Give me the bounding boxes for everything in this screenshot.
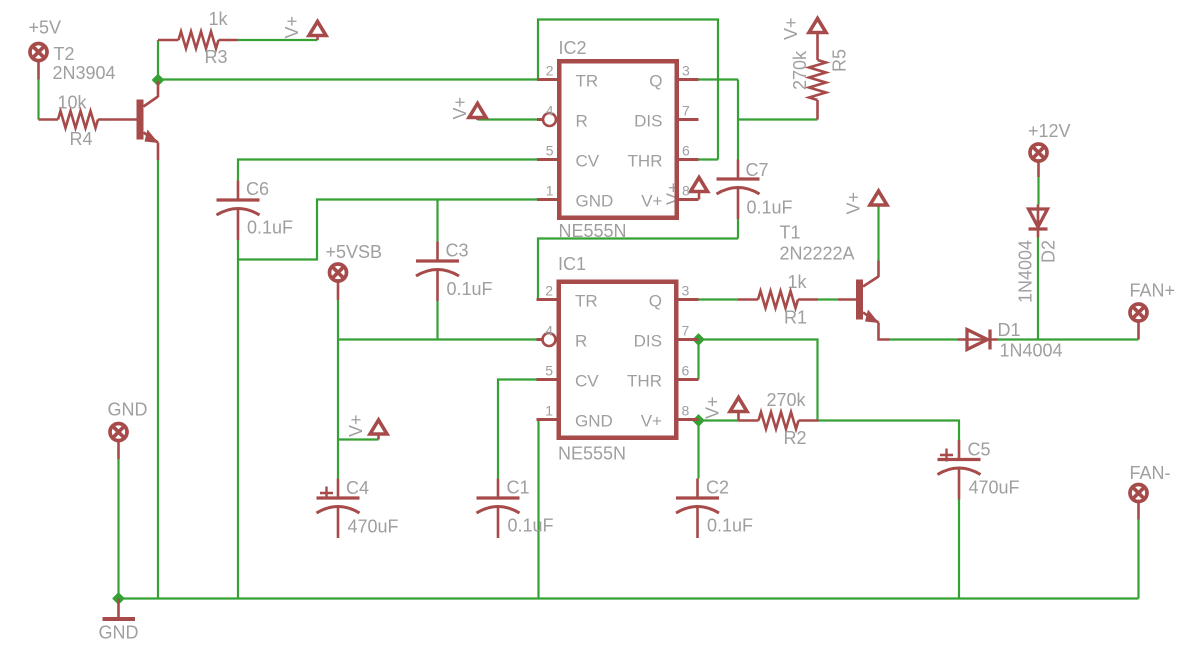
- svg-text:T2: T2: [54, 44, 75, 64]
- svg-text:7: 7: [682, 103, 690, 119]
- svg-text:C4: C4: [346, 478, 369, 498]
- pin 6 THR: [677, 378, 699, 381]
- transistor T2 2N3904: [53, 44, 159, 160]
- wire T2 emitter to ground bus: [157, 160, 159, 599]
- svg-text:5: 5: [546, 143, 554, 159]
- V+ symbol at IC2 pin8: [664, 178, 708, 206]
- wire IC2 pin3 Q to node: [699, 78, 739, 80]
- wire node down to C7 top: [737, 80, 739, 160]
- wire IC1 pin1 GND to ground bus: [537, 420, 539, 599]
- pin 7 DIS: [677, 118, 699, 121]
- svg-text:V+: V+: [703, 396, 723, 419]
- svg-text:THR: THR: [628, 152, 663, 171]
- svg-text:1N4004: 1N4004: [1000, 341, 1063, 361]
- svg-text:NE555N: NE555N: [558, 444, 626, 464]
- wire GND top symbol to ground bus: [117, 459, 119, 599]
- svg-text:C2: C2: [706, 478, 729, 498]
- capacitor C6 0.1uF: [217, 179, 294, 240]
- svg-text:5: 5: [545, 363, 553, 379]
- resistor R4: [39, 93, 137, 150]
- svg-text:T1: T1: [780, 223, 801, 243]
- svg-text:V+: V+: [641, 192, 662, 211]
- pin 2 TR: [537, 78, 559, 81]
- wire to R5 bottom: [738, 118, 818, 120]
- svg-text:R3: R3: [205, 47, 228, 67]
- svg-text:IC2: IC2: [559, 38, 587, 58]
- wire R3 right to V+: [238, 39, 318, 41]
- supply +12V: [1028, 121, 1071, 177]
- pin 8 V+: [677, 418, 699, 421]
- svg-text:GND: GND: [108, 400, 148, 420]
- svg-text:TR: TR: [575, 292, 598, 311]
- svg-text:3: 3: [682, 283, 690, 299]
- op-amp-box IC2 NE555N: [537, 38, 699, 241]
- svg-text:C7: C7: [746, 160, 769, 180]
- pin FAN+: [1130, 281, 1176, 340]
- supply +5V: [29, 18, 62, 80]
- pin 1 GND: [537, 418, 559, 421]
- capacitor C1 0.1uF: [477, 478, 554, 539]
- V+ symbol at T1 collector: [844, 191, 888, 215]
- supply +5VSB: [326, 242, 383, 300]
- svg-text:V+: V+: [450, 97, 470, 120]
- resistor R5: [790, 32, 850, 120]
- svg-text:8: 8: [682, 403, 690, 419]
- wire C3 bottom: [436, 301, 438, 340]
- wire V+ to IC2 pin4 R: [478, 118, 544, 120]
- svg-text:0.1uF: 0.1uF: [508, 516, 554, 536]
- capacitor C2 0.1uF: [676, 478, 753, 539]
- wire C3 top: [436, 200, 438, 242]
- wire +12V to D2: [1037, 177, 1039, 205]
- svg-text:7: 7: [682, 323, 690, 339]
- wire IC1 pin7 to pin6 THR: [697, 340, 699, 380]
- svg-text:V+: V+: [781, 17, 801, 40]
- wire node A to IC2 pin2 TR: [158, 78, 537, 80]
- svg-text:CV: CV: [576, 152, 600, 171]
- svg-text:THR: THR: [627, 372, 662, 391]
- wire D2 down to FAN+ net: [1037, 238, 1039, 340]
- wire V+ tap near C4: [338, 438, 379, 440]
- svg-text:4: 4: [546, 103, 554, 119]
- svg-text:1: 1: [546, 183, 554, 199]
- wire FAN- down to ground bus: [1137, 520, 1139, 599]
- wire IC2 pin6 THR: [699, 158, 719, 160]
- pin 3 Q: [677, 298, 699, 301]
- pin 1 GND: [537, 198, 559, 201]
- pin 4 R: [537, 118, 543, 121]
- capacitor C5 470uF polarized: [938, 440, 1020, 500]
- V+ symbol near R3: [282, 16, 326, 40]
- wire C5 bottom to ground bus: [958, 500, 960, 599]
- pin 3 Q: [677, 78, 699, 81]
- svg-text:V+: V+: [664, 182, 684, 205]
- junction at IC1 pin7: [692, 333, 705, 346]
- wire IC1 pin5 CV to C1: [498, 380, 537, 479]
- svg-text:Q: Q: [649, 292, 662, 311]
- wire C6 top to IC2 pin5 CV: [238, 160, 537, 181]
- svg-text:8: 8: [682, 183, 690, 199]
- svg-text:+5VSB: +5VSB: [326, 242, 383, 262]
- wire T1 collector to V+: [877, 207, 879, 261]
- svg-text:6: 6: [682, 363, 690, 379]
- diode D1 1N4004: [958, 320, 1063, 361]
- resistor R3: [158, 9, 238, 67]
- svg-text:R4: R4: [70, 129, 93, 149]
- diode D2 1N4004: [1016, 205, 1059, 304]
- wire R3 left down to node A: [157, 40, 159, 80]
- pin FAN-: [1130, 463, 1171, 520]
- capacitor C3 0.1uF: [416, 241, 493, 302]
- svg-text:2N2222A: 2N2222A: [780, 244, 855, 264]
- svg-text:V+: V+: [346, 414, 366, 437]
- wire IC1 pin7 DIS to R2 right: [699, 340, 818, 421]
- svg-text:R5: R5: [830, 49, 850, 72]
- junction at ground bus left: [112, 592, 125, 605]
- junction node A at T2 collector: [152, 74, 165, 87]
- svg-text:GND: GND: [575, 412, 613, 431]
- svg-text:V+: V+: [844, 192, 864, 215]
- svg-text:2: 2: [545, 283, 553, 299]
- pin 2 TR: [537, 298, 559, 301]
- svg-text:R2: R2: [784, 428, 807, 448]
- wire C7 bottom to IC1 pin2 TR: [538, 239, 738, 300]
- svg-text:C5: C5: [968, 440, 991, 460]
- svg-text:R1: R1: [784, 308, 807, 328]
- svg-text:10k: 10k: [58, 93, 88, 113]
- svg-text:C1: C1: [507, 478, 530, 498]
- wire +5V to R4: [37, 80, 39, 120]
- V+ symbol at IC1 pin8: [703, 396, 748, 420]
- wire D1 to FAN+: [998, 338, 1139, 340]
- svg-text:C6: C6: [246, 179, 269, 199]
- wire T1 emitter to D1: [890, 338, 958, 340]
- capacitor C7 0.1uF: [717, 160, 793, 220]
- wire C6 bottom to IC2 pin1 GND: [238, 200, 537, 260]
- svg-text:1k: 1k: [209, 9, 229, 29]
- svg-text:1N4004: 1N4004: [1016, 240, 1036, 303]
- svg-text:0.1uF: 0.1uF: [707, 516, 753, 536]
- transistor T1 2N2222A: [780, 223, 890, 340]
- svg-text:270k: 270k: [767, 390, 807, 410]
- wire +5VSB down to C4: [337, 300, 339, 479]
- svg-text:1k: 1k: [788, 272, 808, 292]
- svg-text:R: R: [575, 332, 587, 351]
- junction at IC1 pin8: [692, 414, 705, 427]
- pin 5 CV: [537, 158, 559, 161]
- op-amp-box IC1 NE555N: [537, 254, 699, 464]
- wire IC1 pin8 V+ to R2 left: [699, 419, 739, 421]
- svg-text:D1: D1: [998, 320, 1021, 340]
- V+ symbol at IC2 pin4: [450, 97, 486, 120]
- ground symbol GND bottom: [99, 599, 139, 643]
- wire C7 bottom: [737, 219, 739, 239]
- resistor R1: [738, 272, 818, 328]
- wire IC2 top loop TR to Q: [538, 20, 718, 160]
- svg-text:FAN+: FAN+: [1130, 281, 1176, 301]
- svg-text:NE555N: NE555N: [559, 221, 627, 241]
- svg-text:6: 6: [682, 143, 690, 159]
- svg-text:0.1uF: 0.1uF: [747, 198, 793, 218]
- svg-text:CV: CV: [575, 372, 599, 391]
- svg-text:0.1uF: 0.1uF: [447, 279, 493, 299]
- V+ symbol at R5 top: [781, 17, 826, 40]
- supply GND top: [108, 400, 148, 460]
- pin 6 THR: [677, 158, 699, 161]
- wire C6 bottom to ground bus: [237, 240, 239, 599]
- wire R1 to T1 base: [818, 298, 838, 300]
- svg-text:GND: GND: [576, 192, 614, 211]
- svg-text:270k: 270k: [790, 50, 810, 90]
- svg-text:+12V: +12V: [1028, 121, 1071, 141]
- svg-text:V+: V+: [282, 16, 302, 39]
- svg-text:Q: Q: [649, 72, 662, 91]
- svg-text:R: R: [576, 112, 588, 131]
- svg-text:3: 3: [682, 63, 690, 79]
- svg-text:TR: TR: [576, 72, 599, 91]
- svg-text:DIS: DIS: [634, 112, 662, 131]
- wire R2 right to C5: [819, 421, 960, 441]
- svg-text:0.1uF: 0.1uF: [247, 218, 293, 238]
- V+ symbol near C4: [346, 414, 387, 439]
- svg-text:+5V: +5V: [29, 18, 62, 38]
- svg-text:V+: V+: [641, 412, 662, 431]
- svg-text:FAN-: FAN-: [1130, 463, 1171, 483]
- wire ground bus: [119, 597, 1139, 599]
- svg-text:DIS: DIS: [634, 332, 662, 351]
- pin 4 R: [537, 338, 543, 341]
- svg-text:470uF: 470uF: [969, 478, 1020, 498]
- pin 8 V+: [677, 198, 699, 201]
- svg-text:4: 4: [545, 323, 553, 339]
- wire +5VSB net to IC1 pin4 R: [338, 338, 542, 340]
- svg-text:2: 2: [546, 63, 554, 79]
- svg-text:C3: C3: [446, 241, 469, 261]
- wire IC1 pin3 Q to R1: [699, 298, 739, 300]
- svg-text:IC1: IC1: [558, 254, 586, 274]
- svg-text:1: 1: [545, 403, 553, 419]
- svg-text:D2: D2: [1039, 240, 1059, 263]
- capacitor C4 470uF polarized: [317, 478, 399, 538]
- pin 5 CV: [537, 378, 559, 381]
- svg-text:GND: GND: [99, 623, 139, 643]
- svg-text:470uF: 470uF: [348, 517, 399, 537]
- pin 7 DIS: [677, 338, 699, 341]
- svg-text:2N3904: 2N3904: [53, 63, 116, 83]
- wire IC1 pin8 down to C2: [697, 421, 699, 479]
- resistor R2: [738, 390, 819, 448]
